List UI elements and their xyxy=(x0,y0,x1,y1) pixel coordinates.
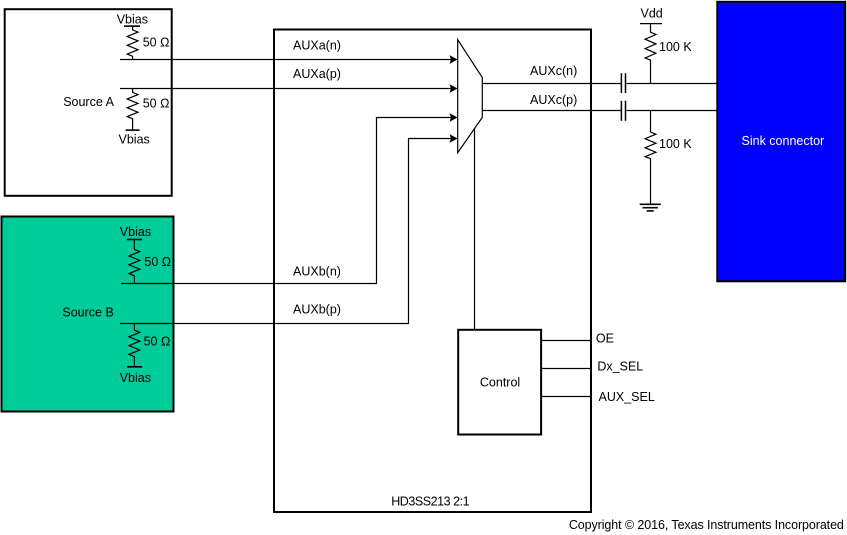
wire AUXc(p) right of cap xyxy=(627,110,717,112)
wire AUXc(n) left of cap xyxy=(482,83,620,85)
svg-text:50 Ω: 50 Ω xyxy=(143,97,170,111)
svg-text:Copyright © 2016, Texas Instru: Copyright © 2016, Texas Instruments Inco… xyxy=(569,518,844,532)
svg-text:Sink connector: Sink connector xyxy=(742,134,825,148)
svg-text:Vbias: Vbias xyxy=(120,225,151,239)
svg-text:AUXb(p): AUXb(p) xyxy=(293,302,341,316)
svg-text:Vdd: Vdd xyxy=(641,7,663,21)
wire mux to control xyxy=(474,129,476,330)
svg-text:AUXa(n): AUXa(n) xyxy=(293,38,341,52)
wire AUXa(p) xyxy=(120,88,452,90)
arrowhead AUXb(n) xyxy=(450,113,458,122)
svg-text:AUXc(p): AUXc(p) xyxy=(530,93,577,107)
resistor 50Ω Source A top xyxy=(124,26,140,59)
source B box xyxy=(2,217,174,412)
resistor 100K top xyxy=(645,24,656,84)
svg-text:Dx_SEL: Dx_SEL xyxy=(597,360,643,374)
resistor 100K bottom xyxy=(645,111,656,205)
sink connector box xyxy=(717,2,845,282)
svg-text:100 K: 100 K xyxy=(659,40,692,54)
svg-text:AUXc(n): AUXc(n) xyxy=(530,64,577,78)
arrowhead AUXa(p) xyxy=(450,84,458,93)
arrowhead AUXb(p) xyxy=(450,134,458,143)
resistor 50Ω Source B bottom xyxy=(127,324,142,367)
svg-text:AUXb(n): AUXb(n) xyxy=(293,264,341,278)
wire Dx_SEL xyxy=(541,368,591,370)
wire AUXb(n) xyxy=(121,118,452,284)
Vdd rail bar xyxy=(640,23,662,25)
HD3SS213 box xyxy=(274,30,591,513)
svg-text:50 Ω: 50 Ω xyxy=(144,335,171,349)
svg-text:Vbias: Vbias xyxy=(120,371,151,385)
svg-text:Source A: Source A xyxy=(63,95,114,109)
resistor 50Ω Source A bottom xyxy=(126,89,140,131)
svg-text:AUX_SEL: AUX_SEL xyxy=(599,390,655,404)
svg-text:Control: Control xyxy=(480,375,520,389)
svg-text:Source B: Source B xyxy=(62,305,113,319)
svg-text:Vbias: Vbias xyxy=(119,133,150,147)
wire AUXc(p) left of cap xyxy=(482,110,620,112)
control box xyxy=(458,330,541,435)
source A box xyxy=(5,9,172,196)
wire AUXa(n) xyxy=(120,59,452,61)
svg-text:HD3SS213 2:1: HD3SS213 2:1 xyxy=(391,495,469,509)
svg-text:50 Ω: 50 Ω xyxy=(143,35,170,49)
mux U1 xyxy=(458,40,483,153)
svg-text:AUXa(p): AUXa(p) xyxy=(293,67,341,81)
resistor 50Ω Source B top xyxy=(127,240,142,284)
svg-text:OE: OE xyxy=(596,332,614,346)
wire AUXc(n) right of cap xyxy=(627,83,717,85)
arrowhead AUXa(n) xyxy=(450,55,458,64)
svg-text:100 K: 100 K xyxy=(659,137,692,151)
wire AUX_SEL xyxy=(541,396,591,398)
wire AUXb(p) xyxy=(120,139,452,324)
ground xyxy=(640,204,661,211)
capacitor C2 xyxy=(621,101,625,121)
svg-text:50 Ω: 50 Ω xyxy=(144,255,171,269)
wire OE xyxy=(541,340,591,342)
capacitor C1 xyxy=(621,73,625,93)
svg-text:Vbias: Vbias xyxy=(117,13,148,27)
